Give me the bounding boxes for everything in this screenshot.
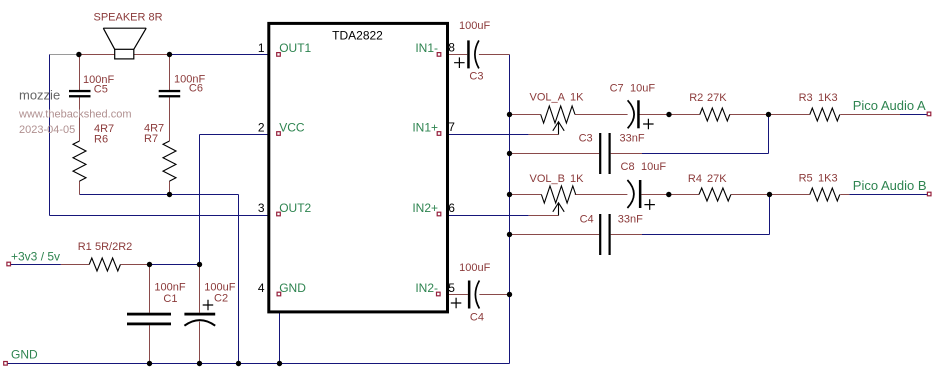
wire pin6 IN2+ to VOL_B wiper: [439, 215, 529, 217]
wire OUT2 riser vertical: [49, 55, 51, 216]
svg-text:1K: 1K: [570, 92, 584, 104]
wire gray segment speaker-left node to OUT2 riser: [50, 54, 79, 56]
plus sign C8: [644, 199, 655, 210]
svg-text:100nF: 100nF: [154, 282, 185, 294]
wire pin5 to C4: [439, 294, 468, 296]
svg-text:1: 1: [258, 41, 265, 55]
svg-text:www.thebackshed.com: www.thebackshed.com: [18, 109, 132, 121]
capacitor C3 33nF: [599, 133, 611, 174]
svg-text:R7: R7: [144, 133, 158, 145]
wire C3 to right bus: [479, 54, 510, 56]
wire bus to VOL_A: [510, 114, 541, 116]
wire GND rail: [6, 363, 510, 365]
svg-text:R3: R3: [799, 92, 813, 104]
capacitor C6: [159, 90, 181, 98]
wire C1 top lead: [149, 265, 151, 313]
svg-text:27K: 27K: [707, 92, 727, 104]
svg-text:10uF: 10uF: [630, 83, 655, 95]
wire supply terminal to R1: [9, 264, 61, 266]
wire C4 33nF to feedback riser B: [611, 234, 642, 236]
svg-text:1K: 1K: [570, 173, 584, 185]
wire bus to C3 33nF: [510, 153, 600, 155]
wire right bus vertical: [509, 55, 511, 364]
wire R1 to C1 node: [120, 264, 149, 266]
wire zobel rail down to ground: [238, 195, 240, 364]
wire VOL_A to C7: [575, 114, 628, 116]
wire C2 bottom lead: [199, 322, 201, 364]
svg-text:100uF: 100uF: [459, 20, 490, 32]
wire R7 bottom lead: [169, 181, 171, 195]
svg-text:mozzie: mozzie: [19, 88, 60, 103]
wire R6 bottom lead: [79, 181, 81, 195]
capacitor C5: [69, 90, 91, 98]
svg-text:100uF: 100uF: [459, 262, 490, 274]
svg-text:R5: R5: [799, 173, 813, 185]
svg-text:IN2+: IN2+: [412, 201, 438, 215]
svg-text:C5: C5: [94, 84, 108, 96]
svg-text:R6: R6: [94, 134, 108, 146]
svg-text:+3v3 / 5v: +3v3 / 5v: [11, 250, 60, 264]
svg-text:2023-04-05: 2023-04-05: [19, 124, 75, 136]
op-amp IC U1 TDA2822 body: [269, 23, 448, 312]
svg-text:VOL_B: VOL_B: [530, 173, 565, 185]
capacitor C8 10uF polarized: [627, 180, 655, 210]
svg-text:33nF: 33nF: [618, 214, 643, 226]
wire R4 to node: [731, 194, 810, 196]
svg-text:1K3: 1K3: [818, 92, 838, 104]
svg-text:GND: GND: [11, 348, 38, 362]
wire speaker left lead: [79, 54, 115, 56]
wire C3 33nF to feedback riser A: [611, 153, 642, 155]
resistor R1: [89, 258, 120, 271]
wire pin8 to C3: [439, 54, 467, 56]
potentiometer VOL_B: [541, 186, 575, 216]
wire C5 to R6: [79, 97, 81, 141]
wire C7 to node: [640, 114, 700, 116]
svg-text:C1: C1: [163, 293, 177, 305]
potentiometer VOL_A: [541, 106, 575, 135]
resistor R3: [810, 108, 840, 121]
plus sign C4: [451, 298, 462, 309]
speaker LS1: [103, 28, 146, 59]
wire pin7 IN1+ to VOL_A wiper: [439, 134, 529, 136]
wire VCC riser vertical: [199, 135, 201, 265]
svg-text:C4: C4: [470, 312, 484, 324]
svg-text:Pico Audio A: Pico Audio A: [853, 98, 926, 113]
capacitor C7 10uF polarized: [628, 100, 654, 129]
plus sign C3: [454, 57, 465, 68]
svg-text:5: 5: [448, 281, 455, 295]
wire R5 to Pico B terminal: [840, 194, 849, 196]
svg-text:C3: C3: [469, 71, 483, 83]
svg-text:C3: C3: [579, 133, 593, 145]
resistor R5: [810, 188, 840, 201]
svg-text:33nF: 33nF: [620, 133, 645, 145]
plus sign C2: [203, 300, 214, 311]
svg-text:27K: 27K: [707, 173, 727, 185]
svg-text:8: 8: [448, 41, 455, 55]
svg-text:R4: R4: [688, 173, 702, 185]
svg-text:VOL_A: VOL_A: [530, 92, 566, 104]
wire VCC horizontal to pin2: [200, 134, 279, 136]
svg-text:VCC: VCC: [279, 121, 305, 135]
svg-text:1K3: 1K3: [818, 173, 838, 185]
wire C2 top lead: [199, 265, 201, 313]
svg-text:C7: C7: [610, 83, 624, 95]
svg-text:2: 2: [258, 121, 265, 135]
wire zobel bottom rail: [80, 194, 239, 196]
svg-text:R1: R1: [78, 241, 92, 253]
wire C4 to right bus: [479, 294, 509, 296]
svg-text:C4: C4: [580, 214, 594, 226]
svg-text:C8: C8: [621, 161, 635, 173]
svg-text:OUT1: OUT1: [279, 41, 311, 55]
svg-text:6: 6: [448, 201, 455, 215]
wire pin4 GND drop: [279, 296, 281, 364]
wire feedback riser B: [769, 195, 771, 235]
wire R3 to Pico A terminal: [840, 114, 900, 116]
svg-text:5R/2R2: 5R/2R2: [95, 241, 132, 253]
svg-text:TDA2822: TDA2822: [332, 29, 383, 43]
svg-text:C2: C2: [214, 293, 228, 305]
capacitor C2 polarized: [184, 300, 215, 326]
svg-text:R2: R2: [689, 92, 703, 104]
capacitor C4 100uF at pin5: [451, 281, 480, 309]
terminal squares: [7, 262, 11, 266]
wire C1 node to C2 node: [150, 264, 200, 266]
svg-text:C6: C6: [189, 83, 203, 95]
wire C5 top lead: [79, 55, 81, 91]
svg-text:IN2-: IN2-: [415, 281, 438, 295]
svg-text:GND: GND: [279, 281, 306, 295]
wire feedback riser A: [768, 115, 770, 154]
resistor R7 vertical: [163, 141, 176, 181]
resistor R2: [700, 108, 730, 121]
svg-text:10uF: 10uF: [641, 161, 666, 173]
svg-text:OUT2: OUT2: [279, 201, 311, 215]
svg-text:3: 3: [258, 201, 265, 215]
wire R2 to node: [730, 114, 810, 116]
plus sign C7: [643, 119, 654, 130]
wire speaker right lead: [134, 54, 170, 56]
svg-text:IN1+: IN1+: [412, 121, 438, 135]
wire C1 bottom lead: [149, 325, 151, 363]
svg-text:Pico Audio B: Pico Audio B: [853, 178, 927, 193]
svg-text:SPEAKER 8R: SPEAKER 8R: [94, 12, 163, 24]
svg-text:IN1-: IN1-: [415, 41, 438, 55]
wire bus to C4 33nF: [510, 234, 600, 236]
wire bus to VOL_B: [510, 194, 542, 196]
capacitor C1: [127, 313, 171, 326]
resistor R6 vertical: [73, 141, 86, 181]
wire C8 to node: [641, 194, 699, 196]
wire C6 to R7: [169, 97, 171, 141]
capacitor C3 100uF at pin8: [454, 40, 479, 68]
wire C6 top lead: [169, 55, 171, 91]
svg-text:4: 4: [258, 281, 265, 295]
wire VOL_B to C8: [575, 194, 628, 196]
wire OUT2 horizontal to pin3: [50, 215, 279, 217]
resistor R4: [699, 188, 731, 201]
wire speaker node to pin1 OUT1: [170, 54, 279, 56]
svg-text:7: 7: [448, 120, 455, 134]
capacitor C4 33nF: [599, 214, 611, 255]
